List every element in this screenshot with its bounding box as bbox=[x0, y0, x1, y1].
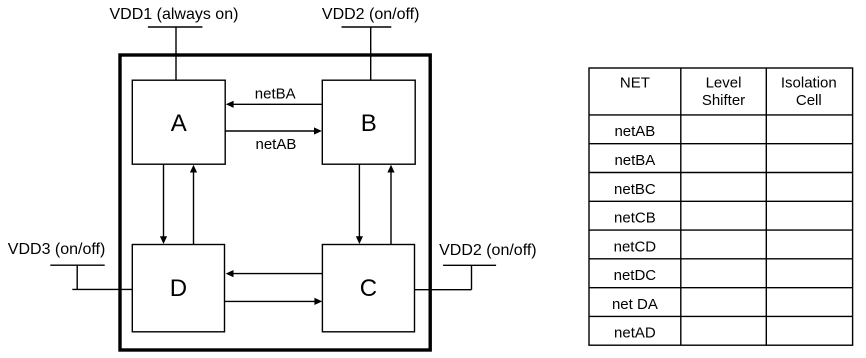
arrowhead netDA into A bbox=[190, 165, 197, 173]
svg-text:VDD3 (on/off): VDD3 (on/off) bbox=[8, 241, 106, 258]
svg-text:NET: NET bbox=[620, 74, 650, 91]
block B bbox=[322, 80, 415, 164]
svg-text:netAB: netAB bbox=[256, 136, 297, 153]
arrowhead netBC into C bbox=[356, 236, 363, 244]
block A bbox=[132, 80, 225, 164]
svg-text:netCD: netCD bbox=[614, 238, 657, 255]
wire VDD2 to C bbox=[415, 289, 472, 291]
wire netCD C to D bbox=[233, 273, 322, 275]
arrowhead netBA into A bbox=[226, 101, 234, 108]
wire netAD A to D bbox=[163, 164, 165, 236]
table row line 1 bbox=[589, 143, 853, 145]
wire netBA B to A bbox=[233, 103, 322, 105]
arrowhead netAD into D bbox=[160, 236, 167, 244]
svg-text:netBC: netBC bbox=[614, 181, 656, 198]
arrowhead netCD into D bbox=[226, 270, 234, 277]
svg-text:VDD1 (always on): VDD1 (always on) bbox=[110, 6, 239, 23]
table row line 4 bbox=[589, 229, 853, 231]
wire VDD2 right drop bbox=[471, 265, 473, 289]
arrowhead netCB into B bbox=[387, 165, 394, 173]
svg-text:VDD2 (on/off): VDD2 (on/off) bbox=[322, 6, 420, 23]
svg-text:netAD: netAD bbox=[614, 325, 656, 342]
wire VDD3 drop bbox=[76, 265, 78, 289]
table row line 6 bbox=[589, 287, 853, 289]
wire netCB C to B bbox=[390, 172, 392, 244]
table row line 5 bbox=[589, 258, 853, 260]
VDD1 rail bar bbox=[148, 26, 203, 28]
svg-text:Level: Level bbox=[706, 75, 742, 92]
svg-text:VDD2 (on/off): VDD2 (on/off) bbox=[439, 242, 537, 259]
wire VDD1 to A bbox=[175, 27, 177, 80]
arrowhead netDC into C bbox=[314, 298, 322, 305]
svg-text:B: B bbox=[361, 110, 377, 137]
wire netBC B to C bbox=[358, 164, 360, 236]
table row line 7 bbox=[589, 315, 853, 317]
block D bbox=[132, 245, 224, 332]
wire netDC D to C bbox=[225, 300, 315, 302]
VDD3 rail bar bbox=[50, 264, 104, 266]
wire netAB A to B bbox=[225, 130, 314, 132]
table outline bbox=[589, 68, 853, 345]
svg-text:Shifter: Shifter bbox=[702, 92, 745, 109]
table row line 2 bbox=[589, 172, 853, 174]
table row line 3 bbox=[589, 200, 853, 202]
svg-text:Cell: Cell bbox=[796, 92, 822, 109]
svg-text:netBA: netBA bbox=[614, 152, 655, 169]
table row line header bbox=[589, 114, 853, 116]
table column line 1 bbox=[680, 68, 682, 345]
block C bbox=[322, 245, 414, 332]
svg-text:netAB: netAB bbox=[614, 123, 655, 140]
table column line 2 bbox=[765, 68, 767, 345]
svg-text:netBA: netBA bbox=[255, 85, 296, 102]
svg-text:netCB: netCB bbox=[614, 210, 656, 227]
svg-text:netDC: netDC bbox=[614, 267, 657, 284]
svg-text:net DA: net DA bbox=[612, 296, 658, 313]
VDD2 rail bar bbox=[342, 26, 392, 28]
arrowhead netAB into B bbox=[314, 127, 322, 134]
VDD2 right rail bar bbox=[443, 264, 496, 266]
wire netDA D to A bbox=[193, 172, 195, 244]
svg-text:C: C bbox=[360, 275, 377, 302]
svg-text:A: A bbox=[171, 110, 187, 137]
wire VDD3 to D bbox=[72, 288, 132, 290]
svg-text:D: D bbox=[170, 275, 187, 302]
svg-text:Isolation: Isolation bbox=[781, 75, 837, 92]
wire VDD2 to B bbox=[370, 27, 372, 80]
power domain outer box bbox=[120, 55, 430, 350]
